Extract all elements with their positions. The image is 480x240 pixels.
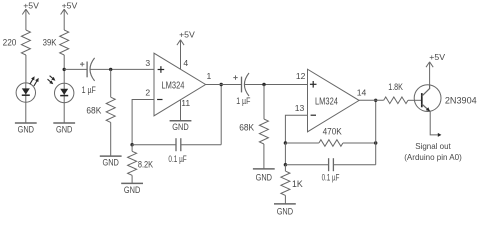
wire xyxy=(110,122,112,156)
LED D1 (IR emitter) xyxy=(16,76,39,102)
node: feedback left bottom xyxy=(284,163,287,166)
68K value label (second) xyxy=(239,122,254,132)
svg-text:GND: GND xyxy=(124,185,140,195)
Q1 device label 2N3904 xyxy=(445,95,477,105)
node: op-amp D input xyxy=(262,83,265,86)
photodiode D2 xyxy=(48,76,74,103)
0.1uF value label (first) xyxy=(168,154,187,164)
wire emitter xyxy=(430,112,438,135)
svg-text:(Arduino pin A0): (Arduino pin A0) xyxy=(404,152,462,162)
svg-text:GND: GND xyxy=(256,173,272,183)
resistor 220 xyxy=(21,30,30,55)
node: feedback left top xyxy=(284,141,287,144)
svg-text:1 µF: 1 µF xyxy=(82,85,97,95)
svg-text:Signal out: Signal out xyxy=(415,141,451,151)
+5V supply (Q1 collector) xyxy=(426,52,445,85)
1.8K value label xyxy=(388,82,403,92)
1uF value label (first) xyxy=(82,85,97,95)
resistor 68K (second) xyxy=(259,119,268,144)
ground (branch 1) xyxy=(15,123,37,135)
svg-text:4: 4 xyxy=(183,58,188,68)
8.2K value label xyxy=(138,160,153,170)
470K value label xyxy=(323,126,342,136)
svg-text:LM324: LM324 xyxy=(162,80,185,91)
svg-text:11: 11 xyxy=(181,98,190,108)
+5V supply (branch 2) xyxy=(61,1,78,31)
wire xyxy=(263,85,265,120)
wire xyxy=(284,143,286,165)
wire xyxy=(110,69,112,97)
svg-text:GND: GND xyxy=(103,158,119,168)
svg-text:2: 2 xyxy=(145,88,150,98)
resistor 68K (first) xyxy=(106,97,115,122)
ground (68K first) xyxy=(100,156,122,167)
pin 13 label xyxy=(295,103,305,113)
svg-text:220: 220 xyxy=(3,37,17,47)
svg-text:+5V: +5V xyxy=(23,1,39,11)
svg-text:3: 3 xyxy=(145,58,150,68)
wire xyxy=(25,55,27,83)
pin 14 label xyxy=(357,88,367,98)
svg-text:+5V: +5V xyxy=(179,30,195,40)
1uF value label (second) xyxy=(236,96,251,106)
wire pin 2 to feedback node xyxy=(132,100,154,145)
wire pin 13 xyxy=(285,115,307,143)
svg-text:1.8K: 1.8K xyxy=(388,82,403,92)
capacitor 1uF (second coupling) xyxy=(233,73,249,96)
ground (1K) xyxy=(274,204,296,216)
ground (branch 2) xyxy=(53,123,75,135)
wire xyxy=(263,144,265,169)
svg-text:1K: 1K xyxy=(292,179,303,189)
resistor 8.2K xyxy=(128,145,137,176)
wire U1a output xyxy=(206,84,242,86)
node: feedback junction xyxy=(130,143,133,146)
svg-text:GND: GND xyxy=(277,206,293,216)
wire xyxy=(408,99,422,101)
op-amp U1d LM324 xyxy=(308,69,360,132)
wire xyxy=(131,175,133,183)
pin 11 label xyxy=(181,98,190,108)
wire xyxy=(333,164,375,166)
wire xyxy=(181,144,221,146)
svg-text:68K: 68K xyxy=(86,105,101,115)
U1d device label LM324 xyxy=(315,96,338,107)
resistor 470K xyxy=(319,140,343,147)
svg-text:1: 1 xyxy=(207,71,212,81)
svg-text:2N3904: 2N3904 xyxy=(445,95,477,105)
svg-text:68K: 68K xyxy=(239,122,254,132)
U1a device label LM324 xyxy=(162,80,185,91)
svg-text:14: 14 xyxy=(357,88,367,98)
39K value label xyxy=(43,37,57,47)
svg-text:470K: 470K xyxy=(323,126,342,136)
svg-text:39K: 39K xyxy=(43,37,57,47)
svg-text:0.1 µF: 0.1 µF xyxy=(322,172,340,182)
svg-text:GND: GND xyxy=(18,125,34,135)
signal out arrow xyxy=(438,133,442,137)
svg-text:0.1 µF: 0.1 µF xyxy=(168,154,187,164)
capacitor 0.1uF (U1a feedback) xyxy=(176,138,181,151)
signal out label xyxy=(404,141,462,162)
wire xyxy=(63,103,65,123)
capacitor 1uF (first coupling) xyxy=(80,58,95,81)
pin 12 label xyxy=(296,71,306,81)
resistor 1K xyxy=(281,165,290,196)
wire xyxy=(285,142,319,144)
wire xyxy=(284,195,286,204)
node: U1a output xyxy=(220,83,223,86)
resistor 39K xyxy=(60,30,69,55)
wire xyxy=(90,68,154,70)
node: feedback right top xyxy=(374,141,377,144)
+5V supply (U1a pin 4) xyxy=(177,30,195,70)
ground (U1a pin 11) xyxy=(170,121,192,132)
220 value label xyxy=(3,37,17,47)
node: op-amp A input xyxy=(109,68,112,71)
ground (8.2K) xyxy=(121,183,143,195)
pin 3 label xyxy=(145,58,150,68)
svg-text:12: 12 xyxy=(296,71,306,81)
svg-text:+5V: +5V xyxy=(429,52,445,62)
svg-text:8.2K: 8.2K xyxy=(138,160,153,170)
ground (68K second) xyxy=(253,169,275,183)
wire pin 11 xyxy=(180,100,182,121)
svg-text:+5V: +5V xyxy=(62,1,78,11)
wire feedback to output xyxy=(220,85,222,145)
wire xyxy=(25,102,27,123)
svg-text:1 µF: 1 µF xyxy=(236,96,251,106)
svg-text:LM324: LM324 xyxy=(315,96,338,107)
svg-text:GND: GND xyxy=(56,125,72,135)
svg-text:GND: GND xyxy=(172,122,188,132)
resistor 1.8K xyxy=(384,97,408,104)
op-amp U1a LM324 xyxy=(154,53,206,116)
transistor Q1 2N3904 xyxy=(414,85,441,112)
pin 4 label xyxy=(183,58,188,68)
svg-text:13: 13 xyxy=(295,103,305,113)
wire xyxy=(285,164,328,166)
68K value label (first) xyxy=(86,105,101,115)
1K value label xyxy=(292,179,303,189)
wire xyxy=(244,84,307,86)
wire xyxy=(63,55,65,83)
capacitor 0.1uF (U1d feedback) xyxy=(329,158,334,171)
pin 1 label xyxy=(207,71,212,81)
wire xyxy=(132,144,176,146)
wire feedback right vertical xyxy=(375,100,377,164)
wire xyxy=(64,68,87,70)
pin 2 label xyxy=(145,88,150,98)
node: U1d output xyxy=(374,99,377,102)
wire xyxy=(343,142,376,144)
node: photodiode/cap junction xyxy=(62,68,65,71)
wire U1d output xyxy=(359,99,384,101)
+5V supply (branch 1) xyxy=(22,1,39,31)
0.1uF value label (second) xyxy=(322,172,340,182)
